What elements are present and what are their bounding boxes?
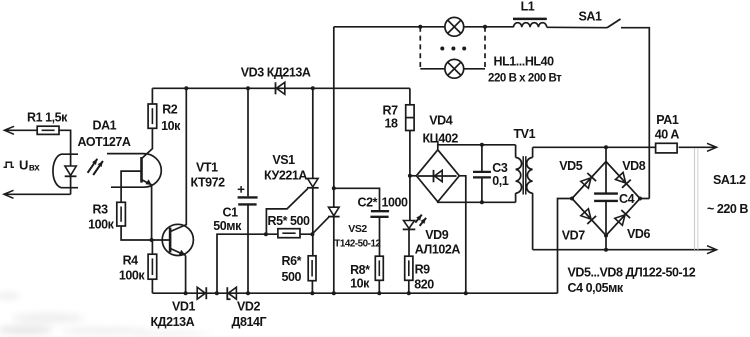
svg-text:VD7: VD7 bbox=[562, 229, 585, 243]
wire rail to R7 bbox=[409, 88, 411, 105]
label R4 bbox=[123, 253, 139, 267]
wire bridge left stub bbox=[410, 175, 417, 177]
wire top rail left end bbox=[333, 27, 335, 207]
output top arrow bbox=[707, 143, 717, 151]
label VS2 bbox=[348, 223, 367, 235]
inductor L1 bbox=[513, 19, 547, 27]
wire R9 bottom bbox=[408, 280, 410, 293]
bridge VD4 diamond bbox=[416, 150, 459, 202]
transformer TV1 primary bbox=[516, 145, 522, 203]
label 500 R6 bbox=[282, 270, 302, 284]
svg-text:SA1: SA1 bbox=[579, 10, 602, 24]
thyristor VS2 bbox=[328, 207, 340, 216]
label 1000 bbox=[382, 196, 409, 210]
label КЦ402 bbox=[423, 132, 459, 146]
label АЛ102А bbox=[415, 242, 461, 256]
svg-text:АОТ127А: АОТ127А bbox=[78, 135, 131, 149]
svg-text:DA1: DA1 bbox=[93, 118, 117, 132]
diode VD3 bbox=[276, 82, 285, 94]
svg-text:R9: R9 bbox=[415, 263, 431, 277]
label VD2 bbox=[237, 300, 260, 314]
resistor R6 bbox=[308, 256, 316, 281]
wire R6 bottom bbox=[311, 281, 313, 294]
label R2 bbox=[162, 102, 178, 116]
node bridge2 bottom bbox=[604, 248, 608, 252]
svg-text:R7: R7 bbox=[383, 104, 399, 118]
label VD5 bbox=[559, 159, 582, 173]
svg-text:~ 220 В: ~ 220 В bbox=[707, 202, 748, 216]
svg-text:VS1: VS1 bbox=[272, 153, 295, 167]
label VD5...VD8 ДЛ122-50-12 bbox=[568, 266, 696, 280]
wire output bottom bbox=[533, 249, 715, 251]
label 50мк bbox=[213, 219, 242, 233]
svg-text:КУ221А: КУ221А bbox=[264, 168, 307, 182]
svg-text:VD2: VD2 bbox=[237, 300, 260, 314]
svg-text:100к: 100к bbox=[119, 269, 146, 283]
label Т142-50-12 bbox=[334, 239, 381, 250]
VS2 cathode bbox=[333, 217, 335, 293]
label 18 bbox=[385, 117, 399, 131]
svg-text:R6*: R6* bbox=[282, 254, 302, 268]
svg-text:40 A: 40 A bbox=[655, 128, 680, 142]
resistor R9 bbox=[405, 256, 413, 280]
optocoupler DA1 body left arc bbox=[53, 154, 78, 188]
thyristor VS1 anode bbox=[312, 88, 314, 178]
label HL1...HL40 bbox=[494, 55, 555, 69]
input bottom arrow bbox=[4, 190, 14, 198]
node rail-C1bot bbox=[246, 291, 250, 295]
svg-text:R2: R2 bbox=[162, 102, 178, 116]
wire L1 to SA1 bbox=[547, 26, 607, 28]
label R1 1,5к bbox=[27, 111, 68, 125]
opto light arrow 1 bbox=[88, 159, 98, 173]
label SA1.2 bbox=[713, 173, 746, 187]
label R6* bbox=[282, 254, 302, 268]
label TV1 bbox=[514, 127, 536, 141]
thyristor VS1 bbox=[307, 178, 319, 187]
wire PA1 right bbox=[679, 146, 715, 148]
LED of DA1 bbox=[65, 166, 77, 176]
svg-text:220 В x 200 Вт: 220 В x 200 Вт bbox=[488, 73, 562, 85]
transformer TV1 core bbox=[523, 156, 526, 194]
resistor R8 bbox=[375, 256, 383, 280]
svg-text:U: U bbox=[19, 158, 28, 173]
wire bridge2 bottom stub bbox=[605, 236, 607, 250]
node bridge left tap bbox=[408, 174, 412, 178]
node bridge right-rail bbox=[464, 291, 468, 295]
wire VD3 span bbox=[276, 87, 285, 89]
DA1 phototransistor bar bbox=[140, 157, 143, 183]
node C3 top bbox=[480, 143, 484, 147]
VT1 collector bbox=[170, 88, 186, 231]
svg-text:VD8: VD8 bbox=[622, 159, 645, 173]
svg-text:TV1: TV1 bbox=[514, 127, 536, 141]
wire rail top-left bbox=[152, 87, 410, 89]
svg-text:VD5...VD8 ДЛ122-50-12: VD5...VD8 ДЛ122-50-12 bbox=[568, 266, 696, 280]
label R3 bbox=[93, 202, 109, 216]
label Uвх bbox=[4, 158, 41, 174]
label VS1 bbox=[272, 153, 295, 167]
label Д814Г bbox=[232, 315, 267, 329]
wire lamp bottom right bbox=[464, 68, 485, 70]
transistor VT1 bar bbox=[169, 228, 172, 253]
resistor R1 bbox=[37, 126, 59, 134]
resistor R3 bbox=[117, 202, 126, 226]
svg-text:R3: R3 bbox=[93, 202, 109, 216]
VT1 emitter bbox=[170, 248, 186, 293]
ammeter PA1 bbox=[656, 143, 678, 153]
svg-text:C2*: C2* bbox=[358, 196, 378, 210]
svg-text:VD5: VD5 bbox=[559, 159, 582, 173]
wire SA1 down bbox=[621, 28, 649, 199]
wire R3 to base junction bbox=[121, 226, 170, 240]
node gate bus left bbox=[264, 232, 268, 236]
node lamp box left bbox=[418, 25, 422, 29]
svg-text:VD3 КД213А: VD3 КД213А bbox=[241, 65, 311, 79]
node R9-rail bbox=[407, 291, 411, 295]
svg-text:100к: 100к bbox=[88, 217, 115, 231]
svg-text:HL1...HL40: HL1...HL40 bbox=[494, 55, 555, 69]
wire R7 to bridge bbox=[409, 131, 411, 221]
wire gate bus bbox=[217, 234, 313, 293]
label VD6 bbox=[627, 227, 650, 241]
capacitor C4 bbox=[594, 162, 618, 236]
svg-text:VT1: VT1 bbox=[196, 161, 218, 175]
label VD7 bbox=[562, 229, 585, 243]
svg-text:820: 820 bbox=[414, 278, 434, 292]
label C4 0,05мк bbox=[568, 281, 624, 295]
label 10к R8 bbox=[350, 277, 370, 291]
node rail-C1wireB bbox=[215, 291, 219, 295]
input top arrow bbox=[5, 126, 15, 134]
dashed lamp box bbox=[420, 27, 485, 69]
svg-text:VS2: VS2 bbox=[348, 223, 367, 235]
resistor R4 bbox=[148, 254, 157, 279]
label R5* 500 bbox=[268, 214, 311, 228]
node bridge2 B vertex bbox=[604, 234, 608, 238]
svg-text:C1: C1 bbox=[223, 206, 239, 220]
wire input top bbox=[7, 129, 38, 131]
VS2 gate bbox=[312, 217, 328, 234]
wire lamp top right bbox=[464, 26, 514, 28]
label C2* bbox=[358, 196, 378, 210]
DA1 phototransistor body bbox=[107, 154, 161, 188]
bridge VD5-VD8 diamond bbox=[572, 162, 640, 236]
svg-text:VD1: VD1 bbox=[172, 300, 195, 314]
svg-text:L1: L1 bbox=[521, 0, 535, 14]
node bridge2 R vertex bbox=[638, 197, 642, 201]
svg-text:Д814Г: Д814Г bbox=[232, 315, 267, 329]
wire bridge right stub bbox=[459, 176, 466, 293]
label КД213А bbox=[151, 315, 195, 329]
node R6-rail bbox=[310, 291, 314, 295]
label АОТ127А bbox=[78, 135, 131, 149]
label VD3 КД213А bbox=[241, 65, 311, 79]
svg-text:1000: 1000 bbox=[382, 196, 409, 210]
node R8-rail bbox=[377, 291, 381, 295]
LED VD9 bbox=[403, 221, 416, 230]
wire bridge2 left stub bbox=[558, 199, 573, 294]
svg-text:VD4: VD4 bbox=[429, 114, 452, 128]
svg-text:Т142-50-12: Т142-50-12 bbox=[334, 239, 381, 250]
node C3 bottom bbox=[480, 200, 484, 204]
output bottom arrow bbox=[707, 246, 717, 254]
svg-text:R5* 500: R5* 500 bbox=[268, 214, 311, 228]
capacitor C1 bbox=[238, 88, 258, 293]
svg-text:VD9: VD9 bbox=[425, 228, 448, 242]
VS1 gate bbox=[266, 189, 307, 235]
capacitor C3 bbox=[473, 145, 491, 203]
wire R1 to LED bbox=[59, 130, 71, 166]
label DA1 bbox=[93, 118, 117, 132]
label VD8 bbox=[622, 159, 645, 173]
transistor VT1 circle bbox=[162, 224, 193, 255]
diode VD6 bbox=[615, 210, 630, 225]
svg-text:10к: 10к bbox=[161, 119, 181, 133]
VD9 light arrow 1 bbox=[415, 215, 422, 223]
wire rail top bbox=[334, 26, 445, 28]
svg-text:вх: вх bbox=[29, 163, 41, 174]
resistor R2 bbox=[148, 104, 157, 128]
capacitor C2 bbox=[334, 188, 389, 256]
node bridge2 L vertex bbox=[570, 197, 574, 201]
label R7 bbox=[383, 104, 399, 118]
label SA1 bbox=[579, 10, 602, 24]
svg-text:КД213А: КД213А bbox=[151, 315, 195, 329]
label 820 bbox=[414, 278, 434, 292]
transformer TV1 secondary bbox=[527, 147, 533, 249]
diode VD5 bbox=[581, 173, 596, 188]
node rail-VS1 bbox=[311, 86, 315, 90]
switch SA1 bbox=[607, 19, 621, 28]
svg-text:18: 18 bbox=[385, 117, 399, 131]
diode VD8 bbox=[616, 172, 631, 187]
DA1 phototransistor base wire bbox=[121, 171, 141, 202]
scan artifact lines bbox=[695, 148, 698, 250]
label 100к bbox=[88, 217, 115, 231]
wire bridge top out bbox=[438, 145, 516, 150]
svg-text:R1 1,5к: R1 1,5к bbox=[27, 111, 68, 125]
label L1 bbox=[521, 0, 535, 14]
label КТ972 bbox=[191, 176, 226, 190]
label VD9 bbox=[425, 228, 448, 242]
DA1 phototransistor collector bbox=[142, 128, 153, 158]
node rail-C1 bbox=[246, 86, 250, 90]
lamp HL bottom bbox=[445, 59, 464, 78]
svg-text:500: 500 bbox=[282, 270, 302, 284]
lamp ellipsis dots bbox=[440, 47, 466, 51]
svg-text:R8*: R8* bbox=[350, 263, 370, 277]
wire bridge2 right stub bbox=[640, 198, 649, 200]
svg-text:C3: C3 bbox=[492, 161, 508, 175]
wire input bottom bbox=[6, 193, 71, 195]
svg-text:С4 0,05мк: С4 0,05мк bbox=[568, 281, 624, 295]
svg-text:10к: 10к bbox=[350, 277, 370, 291]
svg-text:VD6: VD6 bbox=[627, 227, 650, 241]
wire output top bbox=[533, 146, 656, 148]
label 40 A bbox=[655, 128, 680, 142]
node emitter-rail bbox=[184, 291, 188, 295]
svg-text:PA1: PA1 bbox=[656, 113, 679, 127]
diode VD7 bbox=[581, 209, 596, 224]
diode VD1 bbox=[197, 287, 206, 299]
label ~ 220 В bbox=[707, 202, 748, 216]
VS1 cathode bbox=[312, 188, 314, 256]
label PA1 bbox=[656, 113, 679, 127]
wire R8 bottom bbox=[378, 280, 380, 293]
node C2 tap bbox=[332, 186, 336, 190]
VD9 light arrow 2 bbox=[420, 218, 427, 226]
wire lamp bottom left bbox=[420, 68, 445, 70]
node gate bus right bbox=[310, 232, 314, 236]
lamp HL top bbox=[445, 17, 464, 36]
label R9 bbox=[415, 263, 431, 277]
label R8* bbox=[350, 263, 370, 277]
wire R2 top bbox=[151, 88, 153, 104]
DA1 phototransistor emitter bbox=[142, 179, 152, 240]
label КУ221А bbox=[264, 168, 307, 182]
svg-text:АЛ102А: АЛ102А bbox=[415, 242, 461, 256]
node lamp box right bbox=[483, 25, 487, 29]
scan noise bottom-left bbox=[0, 292, 210, 337]
wire bridge2 top stub bbox=[605, 147, 607, 161]
svg-text:0,1: 0,1 bbox=[492, 174, 509, 188]
node bridge2 top bbox=[604, 145, 608, 149]
wire bridge bottom out bbox=[438, 201, 516, 204]
svg-text:C4: C4 bbox=[619, 192, 635, 206]
label 0,1 bbox=[492, 174, 509, 188]
label C3 bbox=[492, 161, 508, 175]
wire rail bottom bbox=[152, 292, 557, 294]
label VD4 bbox=[429, 114, 452, 128]
label C4 bbox=[619, 192, 635, 206]
svg-text:50мк: 50мк bbox=[213, 219, 242, 233]
label 10к bbox=[161, 119, 181, 133]
label VD1 bbox=[172, 300, 195, 314]
label 220 В x 200 Вт bbox=[488, 73, 562, 85]
svg-text:SA1.2: SA1.2 bbox=[713, 173, 746, 187]
node rail-VT1c bbox=[184, 86, 188, 90]
label 100к R4 bbox=[119, 269, 146, 283]
bridge VD4 inner diode bbox=[418, 170, 457, 182]
node VS2-rail bbox=[332, 291, 336, 295]
resistor R7 bbox=[406, 105, 414, 131]
diode VD2 (zener) bbox=[227, 287, 237, 299]
svg-text:R4: R4 bbox=[123, 253, 139, 267]
wire R4 leads bbox=[151, 240, 153, 293]
label VT1 bbox=[196, 161, 218, 175]
label C1 bbox=[223, 206, 239, 220]
wire VD9 to R9 bbox=[408, 229, 410, 256]
wire LED to bottom bbox=[70, 176, 72, 194]
svg-text:КЦ402: КЦ402 bbox=[423, 132, 459, 146]
resistor R5 bbox=[278, 229, 300, 238]
svg-text:КТ972: КТ972 bbox=[191, 176, 226, 190]
opto light arrow 2 bbox=[93, 161, 103, 175]
node VT1 base bbox=[150, 238, 154, 242]
